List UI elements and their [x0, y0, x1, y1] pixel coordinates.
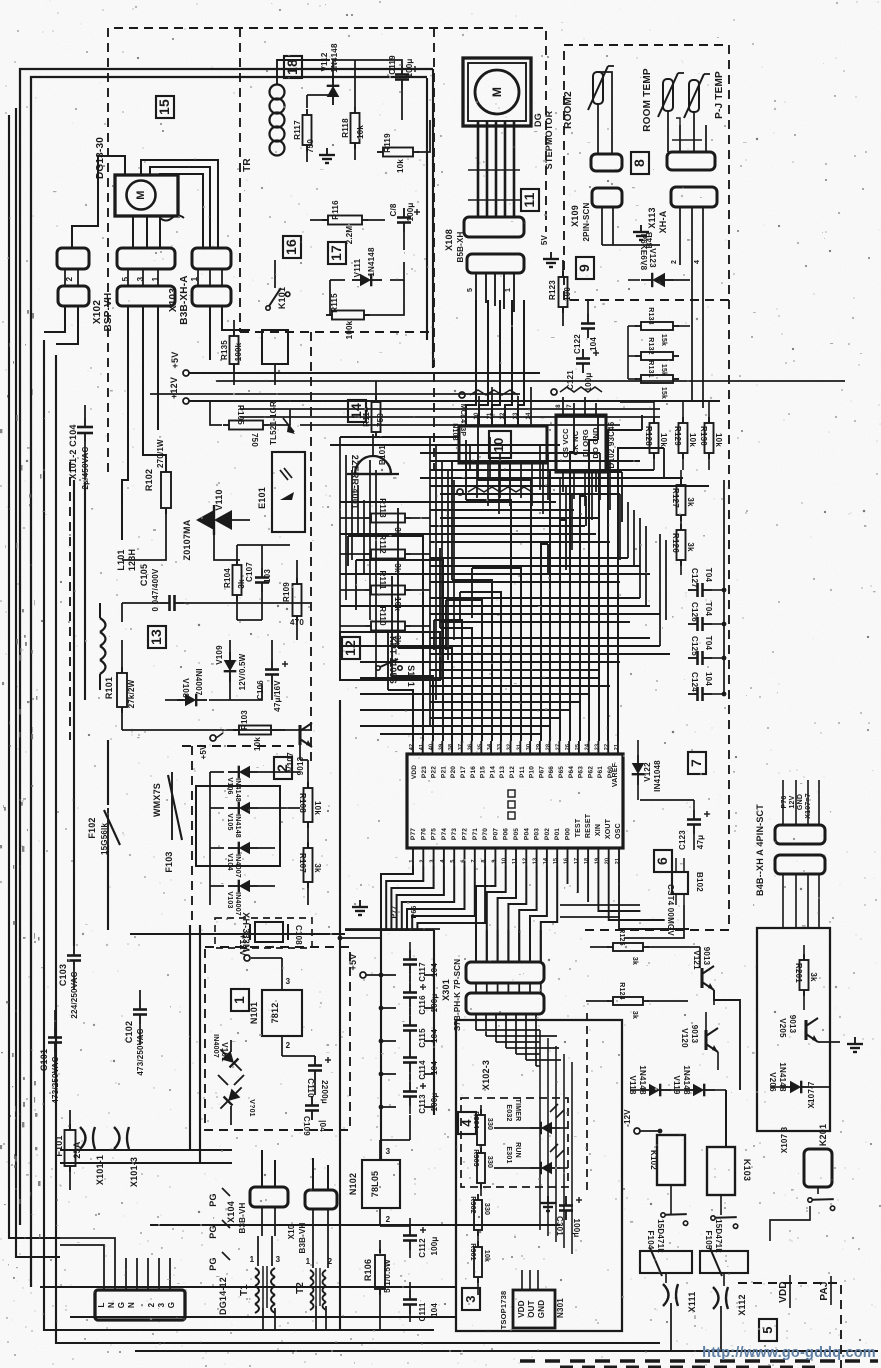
- capacitor C104 X101-2 2u/450VAC: [84, 418, 86, 427]
- wire n301 pins: [521, 1270, 523, 1290]
- wire left column long 1: [73, 480, 75, 946]
- wire mcu pin route: [541, 544, 548, 741]
- resistor R108 10k: [304, 788, 313, 822]
- connector X301 lower: [466, 993, 544, 1014]
- wire conn row2 drops right: [198, 306, 234, 340]
- wire mcu bottom fanout middle to X301: [476, 866, 495, 962]
- wire verticals midfield: [429, 437, 431, 726]
- resistor R107 3k: [304, 848, 313, 882]
- section border 3 dashed vertical: [586, 1013, 588, 1190]
- capacitor C103 224/250VAC: [73, 946, 75, 956]
- section label 13: [148, 626, 166, 648]
- resistor network RN above N103: [470, 390, 518, 395]
- wire relay area verticals: [725, 1090, 727, 1147]
- connector X-TEMP: [667, 152, 715, 170]
- capacitor C123 47u: [693, 810, 695, 820]
- section border crystal dashed box: [215, 918, 312, 948]
- connector X-ROOM2: [591, 154, 622, 171]
- capacitor C119 100u: [401, 65, 403, 75]
- capacitor C112 100μ: [409, 1226, 411, 1236]
- thermistor RT2: [663, 79, 673, 111]
- wire right column nets: [680, 515, 682, 530]
- connector X108 lower: [467, 254, 524, 273]
- ground sec2: [352, 900, 368, 915]
- regulator N102 78L05: [362, 1160, 400, 1208]
- section label 15: [156, 96, 174, 118]
- resistor R128 10k: [650, 423, 659, 453]
- section border bottom dashed: [520, 1359, 878, 1362]
- ground sec9: [543, 252, 559, 267]
- capacitor C118 100u: [403, 208, 405, 218]
- wire sec7 nets: [637, 740, 639, 755]
- capacitor C113 100μ: [409, 1082, 411, 1092]
- resistor R116 2.2M: [328, 216, 362, 225]
- resistor R124 3k: [613, 997, 643, 1005]
- section border right of 17 dashed: [433, 28, 435, 470]
- section border 2 dashed vertical: [310, 332, 312, 762]
- relay K101 contact: [261, 286, 291, 311]
- wire sec17 nets: [310, 219, 327, 221]
- capacitor C102 473/250VAC: [139, 1000, 141, 1010]
- capacitor C116 100μ: [409, 983, 411, 993]
- resistor R131 15k: [641, 375, 673, 383]
- connector X102b row2: [58, 286, 89, 306]
- connector X109 2PIN-SCN: [592, 188, 622, 207]
- wire mcu bottom fanout nested left: [381, 866, 413, 930]
- thermistor RT3: [689, 80, 699, 112]
- wire mcu pin route: [580, 496, 586, 741]
- wire mains connector pins: [103, 1258, 105, 1290]
- wire mcu pin route: [599, 472, 622, 741]
- wire sct pins down: [782, 874, 784, 928]
- wire mcu pin route: [388, 690, 413, 741]
- diode V104 IN4007: [228, 842, 258, 855]
- resistor R129 10k: [679, 423, 688, 453]
- wire mcu pin route: [466, 500, 511, 741]
- section border 4 dashed box: [461, 1098, 568, 1187]
- connector X102 BSP-VH: [117, 248, 175, 269]
- wire RT1: [597, 104, 599, 130]
- inductor TR winding circles: [270, 85, 285, 100]
- box section5: [757, 928, 830, 1131]
- capacitor C122 104: [587, 314, 589, 324]
- resistor R301 10k: [474, 1247, 482, 1277]
- capacitor C106 47u/16V: [271, 660, 273, 670]
- wire motor loop inner: [160, 174, 203, 248]
- wire conn row2 drops left: [44, 306, 65, 332]
- relay K102 coil: [657, 1135, 685, 1185]
- relay contact K103: [710, 1209, 741, 1229]
- capacitor C125 104: [688, 657, 698, 659]
- resistor R114 750: [372, 402, 381, 432]
- transistor V205 9013: [804, 1020, 807, 1040]
- wire mcu pin route: [398, 648, 452, 741]
- ground sec5: [847, 1037, 863, 1052]
- resonator B102 CST400MGV: [672, 872, 688, 894]
- wire b102 nets: [675, 858, 677, 872]
- resistor R118 10k: [351, 113, 360, 143]
- resistor network above D102: [560, 387, 602, 392]
- wire sensor adc nets: [653, 402, 655, 423]
- wire +12V rail: [189, 400, 720, 402]
- ground sym sec18: [319, 148, 335, 163]
- terminal -12V: [634, 1128, 640, 1134]
- wire bottom bus 3: [40, 1286, 456, 1288]
- wire rail mid 3: [240, 408, 660, 410]
- MCU top pins: [412, 741, 414, 754]
- wire x301 routes right: [476, 1029, 540, 1031]
- terminal +12V sec1: [244, 955, 250, 961]
- capacitor C124 104: [688, 693, 698, 695]
- resistor R115 100k: [332, 311, 364, 320]
- step motor M2 circle: [475, 70, 519, 114]
- connector X103 B3B-XH-A row2: [192, 286, 231, 306]
- underline PAJ: [830, 1276, 832, 1305]
- connector X103a: [192, 248, 231, 269]
- wire crystal feed bus: [130, 933, 345, 935]
- label main chip glyphs: [508, 790, 515, 797]
- wire N103 top pins: [465, 405, 467, 426]
- wire mains line left: [9, 115, 60, 1238]
- diode V122 IN41048: [632, 755, 645, 785]
- wire mcu pin route: [446, 600, 482, 741]
- wire sec5 bottom: [770, 1206, 810, 1241]
- wire sec9 nets: [601, 207, 603, 245]
- capacitor C301 100u: [565, 1196, 567, 1206]
- connector K201: [804, 1149, 832, 1187]
- section border 1 dashed box: [205, 947, 350, 1130]
- wire mcu pin route: [608, 430, 642, 741]
- resistor R303 330: [477, 1153, 485, 1183]
- wire sec18 nets: [306, 95, 308, 108]
- wire mcu pin route: [452, 580, 492, 741]
- wire mcu pin route: [560, 520, 566, 741]
- wire bus horizontals midfield: [340, 436, 459, 438]
- wire step motor tick marks: [468, 169, 520, 171]
- wire step motor leads: [477, 121, 480, 217]
- wire diode nets: [630, 1089, 641, 1091]
- IC N301 TSOP1738: [513, 1290, 555, 1328]
- section label 8: [631, 152, 649, 174]
- wire left bus 4: [56, 355, 660, 1343]
- wire left column long 2: [84, 482, 86, 700]
- wire node joint left: [338, 936, 343, 941]
- capacitor C115 104: [409, 1016, 411, 1026]
- wire bottom bus horizontals: [560, 904, 640, 906]
- wire sec2 nets: [271, 729, 285, 731]
- wire connector row1-row2 links: [64, 269, 66, 286]
- wire x113 down: [679, 207, 681, 265]
- fuse F101 25A: [65, 1130, 76, 1166]
- wire plugs feed 1: [60, 1149, 232, 1151]
- resistor R112 3k: [371, 550, 405, 559]
- section border sensors 8 dashed box: [564, 45, 729, 300]
- connector X-SCT lower: [775, 855, 825, 874]
- ground c301: [540, 1196, 556, 1211]
- wire triac: [165, 508, 167, 540]
- wire capbank stubs: [409, 1115, 411, 1140]
- scan haze overlay: [0, 0, 1, 1]
- resistor R132 15k: [641, 352, 673, 360]
- wire osc to B102: [614, 905, 676, 929]
- transistor V120 9013: [704, 1030, 707, 1050]
- zener V109 12V/0.5W: [224, 652, 237, 682]
- wire transformer nets: [261, 1207, 263, 1236]
- resistor R104 3k: [233, 565, 242, 595]
- wire outer frame top double line: [20, 69, 433, 1225]
- resistor R113 3k: [371, 514, 405, 523]
- section label 12: [342, 637, 360, 659]
- IC U1 main chip body: [407, 754, 623, 848]
- wire k201: [817, 1187, 819, 1194]
- varistor F104 15D471K: [640, 1251, 692, 1273]
- resistor R133 15k: [641, 322, 673, 330]
- capacitor C110 2200u: [314, 1056, 316, 1066]
- resistor R105 750: [229, 421, 263, 430]
- resistor R126 3k: [677, 530, 686, 560]
- wire ladder right nets: [628, 325, 637, 327]
- connector X104 B3B-VH: [250, 1187, 288, 1207]
- wire X301 top risers: [475, 930, 477, 962]
- relay contact sec5: [807, 1191, 838, 1211]
- section label 7: [688, 752, 706, 774]
- capacitor C107 103: [261, 568, 263, 578]
- wire F102 column: [107, 740, 109, 805]
- wire sec5 nets: [803, 990, 805, 1010]
- wire rail mid 2: [150, 393, 520, 395]
- section border 2 dashed left: [191, 746, 193, 925]
- fuse F102 15G56lk: [104, 810, 120, 845]
- wire bottom bus long: [135, 1350, 878, 1352]
- wire +5V rail: [189, 372, 540, 374]
- section label 2: [274, 757, 292, 779]
- varistor F105 15D471K: [700, 1251, 748, 1273]
- wire buzzer nets: [372, 434, 374, 456]
- wire ladder nets: [340, 517, 365, 519]
- wire varistor nets: [665, 1273, 667, 1283]
- capacitor C127 104: [688, 589, 698, 591]
- resistor R101 27k/2W: [117, 673, 127, 707]
- capacitor C114 104: [409, 1048, 411, 1058]
- wire motor loop outer: [141, 160, 218, 248]
- wire left column nets: [84, 405, 86, 418]
- section label 4: [458, 1112, 476, 1134]
- transistor V121 9013: [700, 968, 703, 988]
- terminal +5V: [183, 370, 189, 376]
- section border 5 dashed: [738, 1283, 841, 1368]
- wire x301 drop bundle: [539, 1030, 541, 1230]
- wire vdd paj: [769, 1220, 771, 1310]
- resistor R111 10k: [371, 586, 405, 595]
- wire X108 to N103 bundle: [466, 300, 476, 426]
- diode V112 1N4148: [327, 75, 340, 105]
- wire relay nets: [670, 1185, 672, 1205]
- bridge rectifier V101 IN4007: [216, 1045, 246, 1075]
- wire sec13 low nets: [121, 640, 123, 672]
- thermistor RT1: [593, 72, 603, 104]
- section label 10 box: [489, 431, 511, 458]
- IC D102 93C46: [556, 415, 606, 472]
- relay K103 coil: [707, 1147, 735, 1195]
- wire mcu pin route: [434, 620, 462, 741]
- wire sec1 nets: [281, 958, 283, 990]
- wire mcu pin route: [550, 470, 556, 741]
- step motor M2 box: [463, 58, 531, 126]
- diode V123 P6KE6V8 zener: [641, 273, 673, 287]
- LED E301 RUN: [530, 1162, 560, 1175]
- section border 13 dashed: [69, 462, 71, 740]
- section label 3: [462, 1288, 480, 1310]
- motor M1 circle: [127, 181, 156, 210]
- wire r124/5 nets: [590, 946, 609, 948]
- section label 9: [576, 257, 594, 279]
- wire left bus 3: [44, 340, 434, 1330]
- crystal XH-333M: [255, 922, 283, 942]
- wire mcu pin route: [440, 628, 472, 741]
- section label 17: [328, 242, 346, 264]
- motor M1 DG13-30 outline: [115, 175, 178, 216]
- underline VDD: [789, 1275, 791, 1308]
- capacitor C117 104: [409, 950, 411, 960]
- motor M1 winding squiggle: [160, 216, 184, 221]
- resistor R103 10k: [239, 726, 271, 735]
- resistor R109 470: [293, 584, 302, 616]
- diode V103 IN4007: [228, 880, 258, 893]
- plug X112: [713, 1287, 728, 1309]
- resistor R106 5.1/0.5W: [375, 1255, 385, 1289]
- wire mcu pin route: [570, 452, 574, 741]
- wire mcu right pins down: [567, 866, 569, 884]
- connector X105 B3B-VH: [305, 1190, 337, 1209]
- diode V118 1N4148: [641, 1084, 671, 1097]
- box around V104/V105: [196, 786, 280, 866]
- transistor V107 9013: [298, 725, 301, 745]
- section border 15 dashed: [108, 28, 546, 472]
- wire mcu pin route: [618, 448, 664, 741]
- wire motor loop mid: [150, 167, 210, 248]
- plug X111: [663, 1284, 678, 1306]
- terminal +5V sec2: [210, 735, 216, 741]
- wire cap bank junction stubs: [381, 974, 396, 976]
- wire mcu pin route: [589, 440, 598, 741]
- wire RT2 RT3: [667, 111, 669, 152]
- diode V108 IN4007: [177, 694, 207, 707]
- wire sct pins up: [782, 780, 784, 825]
- capacitor C109 104: [311, 1096, 313, 1106]
- resistor R102 270/1W: [161, 472, 171, 508]
- key switch S101 KPT-1105S: [340, 632, 440, 680]
- wire cap bank top bus: [345, 929, 434, 931]
- diode V106 IN4148: [228, 766, 258, 779]
- resistor R304 330: [477, 1115, 485, 1145]
- wire mcu pin route: [356, 560, 443, 741]
- resistor R117 750: [303, 115, 312, 145]
- LED E302 TIMER: [530, 1122, 560, 1135]
- capacitor C101 473/250VAC: [54, 1028, 56, 1038]
- terminal +5V capbank: [360, 972, 366, 978]
- fuse F103 WMX7S: [168, 775, 182, 840]
- wire mcu pin route: [348, 536, 423, 741]
- transformer T2: [310, 1270, 314, 1278]
- section label 1: [231, 989, 249, 1011]
- relay contact K102: [660, 1206, 691, 1226]
- wire maze vertical drops: [387, 630, 389, 690]
- section label 5: [759, 1319, 777, 1341]
- wire motor left loop: [72, 156, 125, 248]
- resistor network RN below N103: [468, 487, 532, 492]
- capacitor C126 104: [688, 623, 698, 625]
- connector X108 B5B-XH upper: [464, 217, 524, 237]
- connector X102a left: [57, 248, 89, 269]
- plug X101-1: [80, 1127, 95, 1149]
- section label 6: [654, 850, 672, 872]
- plug X101-3: [114, 1127, 129, 1149]
- wire transistor nets: [699, 947, 701, 968]
- resistor R130 10k: [705, 423, 714, 453]
- diode V119 1N4148: [685, 1084, 715, 1097]
- section border 6 dashed bottom: [585, 929, 729, 931]
- capacitor C121 100u: [582, 349, 584, 359]
- relay K101 frame: [262, 330, 288, 364]
- wire rails extra: [240, 416, 660, 418]
- section border 16/18 dashed vertical: [239, 28, 241, 332]
- wire X108 down bundle: [475, 273, 477, 300]
- diode V105 IN4148: [228, 802, 258, 815]
- section border 9/7 dashed right: [728, 300, 730, 930]
- capacitor C111 104: [409, 1290, 411, 1300]
- resistor R302 330: [474, 1200, 482, 1230]
- diode V111 1N4148: [352, 274, 382, 287]
- wire r105: [210, 401, 222, 425]
- resistor R201 3k: [800, 960, 809, 990]
- wire conn row2 drops middle: [122, 306, 128, 540]
- section label 16: [283, 236, 301, 258]
- connector X102 BSP-VH row2: [117, 286, 175, 306]
- IC N103 driver: [459, 426, 547, 463]
- wire bottom bus 2: [70, 1316, 456, 1318]
- wire sec4 nets: [480, 1105, 482, 1113]
- terminal +12V: [183, 398, 189, 404]
- ground x113: [633, 225, 649, 240]
- wire mcu pin route: [392, 676, 433, 741]
- wire X301 bottom fan: [475, 1014, 477, 1030]
- wire mcu pin route: [460, 592, 501, 741]
- wire frame drops right: [432, 69, 434, 368]
- wire mcu pin route: [478, 480, 531, 741]
- section label 14: [348, 400, 366, 422]
- section label 18: [284, 56, 302, 78]
- wire c105: [122, 602, 160, 604]
- regulator N101 7812: [262, 990, 302, 1036]
- resistor R119 10k: [383, 148, 413, 157]
- wire D102 top pins: [562, 397, 564, 415]
- wire D102 bottom pins: [562, 472, 564, 492]
- connector mains LNGN-23G: [95, 1290, 185, 1320]
- connector X113 XH-A: [671, 187, 717, 207]
- connector X-SCT upper: [775, 825, 825, 844]
- wire mcu pin route: [472, 568, 521, 741]
- section label 11: [521, 189, 539, 211]
- wire rail mid 1: [216, 380, 845, 382]
- wire pg bus: [150, 1224, 560, 1226]
- diode V206 1N4148: [782, 1081, 812, 1094]
- wire k101 nets: [274, 260, 276, 288]
- optocoupler E101 TL521-1GR: [272, 452, 305, 532]
- wire motor bottom pins: [132, 216, 134, 248]
- MCU bottom pins: [412, 848, 414, 866]
- triac V110 Z0107MA: [196, 510, 214, 530]
- svg-text:http://www.go-gddq.com: http://www.go-gddq.com: [702, 1345, 876, 1361]
